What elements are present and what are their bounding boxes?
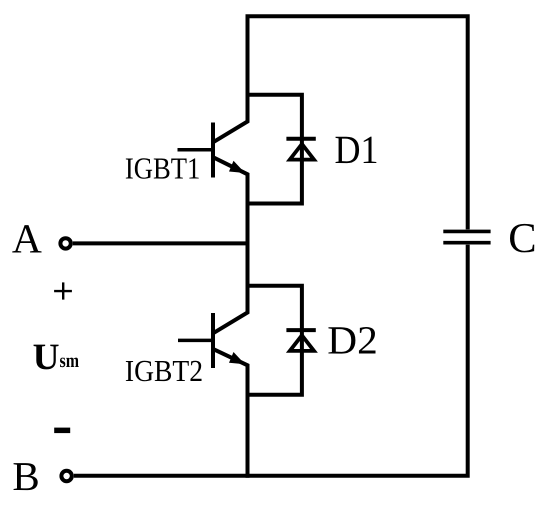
- terminal A circle: [60, 238, 70, 248]
- capacitor C top plate: [443, 230, 490, 234]
- svg-text:U: U: [33, 337, 60, 378]
- wire IGBT1 emitter down through node A to IGBT2 collector: [213, 157, 248, 333]
- diode D1 cathode bar: [286, 137, 315, 141]
- wire D1 branch loop: [248, 95, 302, 204]
- capacitor C bottom plate: [443, 241, 490, 245]
- wire IGBT2 emitter down to bottom bus: [213, 349, 248, 478]
- transistor IGBT2 emitter arrowhead: [229, 352, 245, 364]
- transistor IGBT1 gate lead: [178, 148, 212, 152]
- wire node A from terminal A to midpoint junction: [73, 241, 248, 245]
- svg-text:A: A: [12, 216, 42, 262]
- transistor IGBT2 body bar: [211, 313, 215, 368]
- transistor IGBT2 gate lead: [178, 339, 211, 343]
- wire capacitor bottom plate down right bus and bottom bus to terminal B: [74, 245, 468, 476]
- minus sign polarity mark: [54, 428, 70, 434]
- plus sign polarity mark: [54, 282, 72, 299]
- transistor IGBT1 emitter arrowhead: [229, 161, 245, 173]
- svg-text:IGBT2: IGBT2: [125, 354, 203, 388]
- svg-text:sm: sm: [60, 350, 80, 372]
- svg-text:C: C: [508, 215, 536, 262]
- diode D1 triangle: [290, 144, 314, 160]
- svg-text:D1: D1: [335, 127, 379, 172]
- svg-text:IGBT1: IGBT1: [125, 151, 200, 185]
- diode D2 triangle: [290, 335, 314, 351]
- svg-text:D2: D2: [327, 317, 378, 362]
- wire top bus from IGBT1 collector up and across to right bus down to capacitor: [213, 16, 468, 229]
- diode D2 cathode bar: [286, 328, 315, 332]
- svg-text:B: B: [12, 453, 39, 499]
- wire D2 branch loop: [248, 286, 302, 395]
- terminal B circle: [61, 471, 71, 481]
- transistor IGBT1 body bar: [211, 123, 215, 178]
